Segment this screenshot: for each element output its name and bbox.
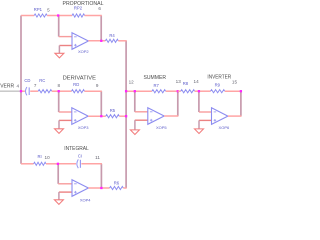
svg-text:11: 11 [95, 155, 100, 160]
junction node 8 [58, 90, 60, 92]
svg-text:15: 15 [232, 80, 238, 85]
capacitor CD [25, 87, 26, 95]
svg-text:RI: RI [38, 154, 42, 159]
op-amp XOP5 [148, 108, 164, 125]
wire XOP6 non-inverting stub [199, 119, 212, 121]
wire RI to node 10 [46, 163, 58, 165]
op-amp XOP2 [72, 33, 88, 50]
wire XOP6 inverting stub [199, 111, 212, 113]
svg-text:RD: RD [73, 82, 79, 87]
svg-text:CD: CD [24, 78, 30, 83]
svg-text:4: 4 [17, 84, 20, 89]
svg-text:INTEGRAL: INTEGRAL [64, 146, 89, 152]
wire XOP2 inverting stub [59, 36, 72, 38]
wire XOP3 non-inverting stub [59, 119, 72, 121]
svg-text:R4: R4 [109, 33, 115, 38]
ground XOP2 [55, 53, 64, 58]
wire node 13 vertical [177, 91, 179, 116]
svg-text:XOP4: XOP4 [80, 198, 91, 203]
op-amp XOP6 [212, 108, 228, 125]
wire node 14 to XOP6 inverting input [198, 91, 200, 112]
svg-text:R5: R5 [110, 108, 116, 113]
wire CD to RC node 7 [30, 90, 38, 92]
junction XOP2 output node 6 [100, 40, 102, 42]
wire node 12 summing vertical [125, 41, 127, 188]
junction node 4 input [20, 90, 22, 92]
wire XOP5 inverting stub [135, 111, 148, 113]
wire XOP4 output [88, 187, 109, 189]
wire R8 to node 14 [195, 90, 199, 92]
resistor RD [72, 90, 85, 93]
wire node 8 to XOP3 inverting input [58, 91, 60, 112]
wire RC to node 8 [52, 90, 59, 92]
capacitor CI [77, 159, 78, 168]
ground XOP5 [130, 130, 139, 135]
junction node 5 [57, 14, 59, 16]
svg-text:CI: CI [78, 154, 82, 159]
resistor R8 [181, 90, 195, 93]
svg-text:6: 6 [98, 6, 101, 11]
svg-text:9: 9 [96, 83, 99, 88]
wire XOP5 non-inverting stub [135, 119, 148, 121]
svg-text:10: 10 [45, 155, 51, 160]
svg-text:14: 14 [194, 79, 200, 84]
wire R5 to node 12 vertical [119, 115, 126, 117]
wire node 12 to XOP5 inverting input [134, 91, 136, 112]
wire left main vertical node 4 [20, 16, 22, 164]
resistor R4 [105, 39, 118, 42]
wire node 10 to XOP4 inverting input [57, 164, 59, 184]
svg-text:XOP6: XOP6 [219, 125, 230, 130]
junction node 12 [125, 90, 127, 92]
resistor RI [34, 162, 46, 165]
svg-text:R9: R9 [215, 83, 221, 88]
svg-text:INVERTER: INVERTER [207, 74, 231, 80]
junction node 10 [57, 163, 59, 165]
resistor RC [38, 90, 52, 93]
wire XOP2 non-inverting stub [59, 45, 72, 47]
svg-text:R6: R6 [114, 181, 120, 186]
junction node 14 [198, 90, 200, 92]
wire node 9 feedback vertical [100, 91, 102, 116]
svg-text:RC: RC [39, 78, 45, 83]
junction node 15 [240, 90, 242, 92]
resistor R7 [152, 90, 166, 93]
wire node 13 to R8 [178, 90, 181, 92]
wire XOP4 ground stub [58, 192, 60, 200]
wire R9 to node 15 [225, 90, 241, 92]
op-amp XOP4 [72, 180, 88, 197]
wire XOP3 output [88, 115, 106, 117]
wire XOP6 ground stub [198, 120, 200, 128]
svg-text:RP1: RP1 [34, 7, 43, 12]
svg-text:7: 7 [34, 83, 37, 88]
wire RP2 to node 6 [85, 15, 102, 17]
svg-text:XOP2: XOP2 [78, 49, 89, 54]
wire VERR input [0, 90, 21, 92]
resistor R5 [106, 115, 120, 118]
svg-text:VERR: VERR [0, 84, 14, 90]
wire node 4 to CD [21, 90, 25, 92]
wire XOP4 non-inverting stub [59, 191, 72, 193]
wire XOP5 output [164, 115, 178, 117]
wire R4 to node 12 vertical [118, 40, 126, 42]
svg-text:8: 8 [58, 83, 61, 88]
svg-text:XOP3: XOP3 [78, 125, 89, 130]
junction R5 into summing vertical [125, 115, 127, 117]
wire node 4 to RP1 [21, 15, 34, 17]
junction XOP3 output node 9 [100, 115, 102, 117]
wire node 15 vertical [240, 91, 242, 116]
resistor RP2 [72, 14, 85, 17]
svg-text:R8: R8 [183, 81, 189, 86]
svg-text:12: 12 [129, 80, 135, 85]
resistor R9 [211, 90, 225, 93]
svg-text:R7: R7 [154, 83, 160, 88]
junction XOP5 inverting drop [134, 90, 136, 92]
wire node 14 to R9 [199, 90, 211, 92]
wire XOP4 inverting stub [58, 183, 72, 185]
junction node 13 [177, 90, 179, 92]
wire node 12 rail [126, 90, 152, 92]
ground XOP3 [55, 129, 64, 134]
wire node 6 feedback vertical [100, 16, 102, 41]
wire RD to node 9 [85, 90, 102, 92]
wire XOP5 ground stub [134, 120, 136, 130]
wire R7 to node 13 [166, 90, 178, 92]
wire XOP6 output [228, 115, 242, 117]
op-amp XOP3 [72, 108, 88, 125]
svg-text:DERIVATIVE: DERIVATIVE [63, 76, 97, 82]
wire XOP3 ground stub [58, 120, 60, 128]
resistor RP1 [34, 14, 47, 17]
svg-text:SUMMER: SUMMER [144, 75, 167, 81]
junction XOP4 output node 11 [100, 187, 102, 189]
wire CI to node 11 [81, 163, 102, 165]
ground XOP6 [195, 129, 204, 134]
wire R6 to node 12 vertical [123, 187, 126, 189]
wire RP1 to node 5 [47, 15, 58, 17]
svg-text:5: 5 [47, 8, 50, 13]
svg-text:13: 13 [176, 79, 182, 84]
wire node 10 to CI [58, 163, 76, 165]
ground XOP4 [54, 200, 63, 205]
wire XOP2 ground stub [58, 46, 60, 54]
wire node 5 to RP2 [58, 15, 72, 17]
wire node 4 to RI [21, 163, 34, 165]
wire node 5 to XOP2 inverting input [58, 16, 60, 37]
svg-text:XOP5: XOP5 [156, 125, 167, 130]
svg-text:RP2: RP2 [74, 5, 83, 10]
wire XOP2 output [88, 40, 105, 42]
svg-text:PROPORTIONAL: PROPORTIONAL [63, 1, 104, 7]
wire node 11 feedback vertical [100, 164, 102, 188]
wire XOP3 inverting stub [59, 111, 72, 113]
wire node 8 to RD [59, 90, 72, 92]
resistor R6 [110, 186, 124, 189]
